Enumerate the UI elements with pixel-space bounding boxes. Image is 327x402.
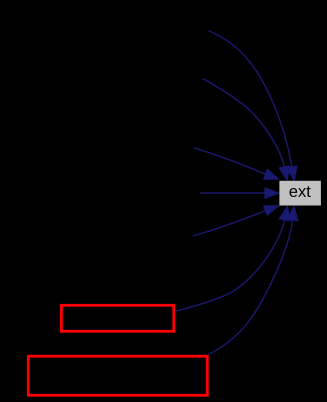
arrowhead edge1 [287, 166, 297, 181]
wire edge6 from red box A into ext bottom [176, 220, 285, 311]
wire edge3 upper-left straight into ext left [194, 148, 266, 175]
arrowhead edge4 [265, 188, 279, 199]
wire edge4 horizontal straight into ext left [200, 192, 265, 194]
node ext label [289, 188, 297, 197]
arrowhead edge2 [279, 166, 289, 181]
wire edge7 from red box B into ext bottom [208, 220, 293, 355]
node red box A [61, 305, 173, 331]
wire edge5 lower-left straight into ext left [193, 211, 265, 236]
arrowhead edge5 [264, 206, 279, 216]
arrowhead edge7 [287, 206, 298, 221]
node ext (grey box) [279, 181, 321, 206]
arrowhead edge3 [264, 169, 279, 179]
arrowhead edge6 [279, 206, 290, 221]
wire edge2 top inner curve into ext top [203, 79, 284, 167]
wire edge1 top outer curve into ext top [209, 31, 292, 167]
node red box B [28, 356, 207, 395]
